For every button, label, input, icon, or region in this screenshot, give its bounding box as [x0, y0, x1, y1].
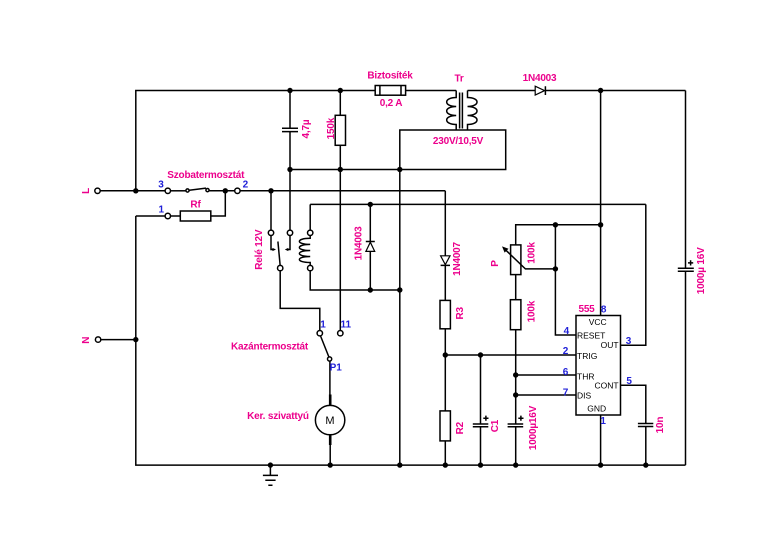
- svg-text:DIS: DIS: [577, 391, 592, 401]
- svg-text:1000µ 16V: 1000µ 16V: [696, 247, 707, 294]
- svg-text:Relé 12V: Relé 12V: [254, 229, 265, 270]
- svg-text:L: L: [81, 188, 92, 194]
- svg-text:0,2 A: 0,2 A: [380, 98, 403, 109]
- svg-text:RESET: RESET: [577, 331, 605, 341]
- svg-text:100k: 100k: [526, 300, 537, 322]
- svg-text:C1: C1: [490, 419, 501, 432]
- svg-text:3: 3: [626, 336, 632, 347]
- svg-text:P: P: [490, 260, 501, 267]
- svg-text:1N4003: 1N4003: [353, 226, 364, 260]
- svg-text:P1: P1: [330, 363, 343, 374]
- svg-text:Kazántermosztát: Kazántermosztát: [231, 342, 309, 353]
- svg-text:230V/10,5V: 230V/10,5V: [433, 136, 484, 147]
- svg-text:VCC: VCC: [589, 317, 607, 327]
- svg-text:Biztosíték: Biztosíték: [367, 71, 413, 82]
- svg-text:100k: 100k: [526, 242, 537, 264]
- svg-text:R3: R3: [455, 306, 466, 319]
- svg-text:Ker. szivattyú: Ker. szivattyú: [247, 411, 309, 422]
- svg-text:R2: R2: [455, 421, 466, 434]
- svg-text:10n: 10n: [655, 417, 666, 434]
- svg-text:THR: THR: [577, 371, 594, 381]
- svg-text:555: 555: [578, 304, 595, 315]
- svg-text:1: 1: [159, 204, 165, 215]
- svg-text:Tr: Tr: [454, 73, 463, 84]
- svg-text:150k: 150k: [326, 117, 337, 139]
- svg-text:4,7µ: 4,7µ: [301, 119, 312, 138]
- svg-text:TRIG: TRIG: [577, 351, 597, 361]
- svg-text:8: 8: [601, 305, 607, 316]
- svg-text:N: N: [81, 337, 92, 344]
- svg-text:M: M: [325, 415, 334, 427]
- svg-text:OUT: OUT: [601, 340, 619, 350]
- svg-text:11: 11: [341, 320, 352, 331]
- svg-text:2: 2: [243, 179, 249, 190]
- svg-text:1N4003: 1N4003: [523, 73, 557, 84]
- svg-text:1000µ16V: 1000µ16V: [528, 405, 539, 450]
- svg-text:Rf: Rf: [190, 200, 201, 211]
- svg-text:CONT: CONT: [595, 380, 619, 390]
- svg-text:1: 1: [320, 320, 326, 331]
- svg-text:1: 1: [600, 416, 606, 427]
- svg-text:7: 7: [563, 387, 569, 398]
- svg-text:Szobatermosztát: Szobatermosztát: [167, 170, 245, 181]
- svg-text:6: 6: [563, 367, 569, 378]
- svg-text:3: 3: [158, 179, 164, 190]
- svg-text:4: 4: [564, 326, 570, 337]
- svg-text:2: 2: [563, 346, 569, 357]
- svg-text:5: 5: [626, 376, 632, 387]
- svg-text:GND: GND: [587, 404, 606, 414]
- svg-text:1N4007: 1N4007: [452, 241, 463, 275]
